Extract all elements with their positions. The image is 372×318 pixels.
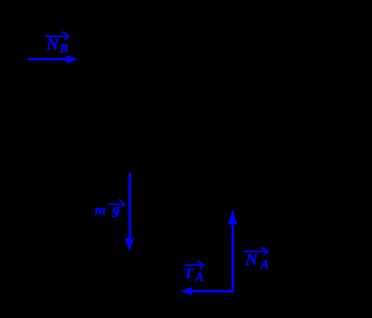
svg-text:A: A [260, 257, 269, 271]
svg-text:A: A [195, 270, 204, 284]
svg-text:N: N [46, 34, 60, 53]
svg-text:m: m [95, 203, 106, 218]
svg-text:g: g [112, 202, 121, 218]
svg-text:N: N [245, 250, 259, 269]
svg-text:T: T [184, 266, 194, 282]
svg-text:B: B [59, 42, 68, 56]
